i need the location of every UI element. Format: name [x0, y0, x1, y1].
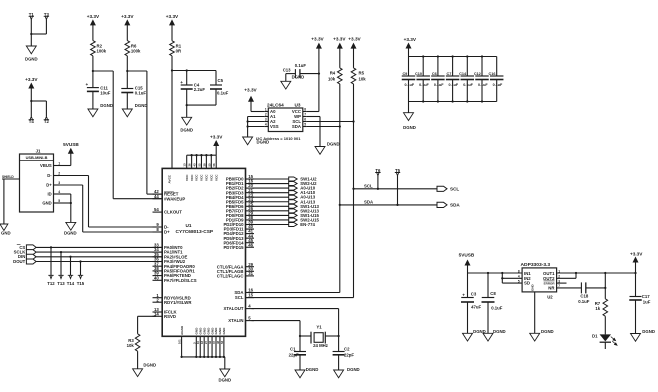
svg-text:+3.3V: +3.3V — [87, 14, 100, 19]
svg-text:D-: D- — [47, 173, 52, 178]
connector J1 USB-MINI-B — [20, 149, 54, 212]
svg-text:C9: C9 — [402, 72, 407, 76]
testpoint T5 — [395, 168, 401, 206]
svg-text:100k: 100k — [131, 48, 141, 53]
svg-text:SD: SD — [524, 281, 530, 286]
ground DGND (C3) — [463, 329, 486, 341]
wire XTALIN — [252, 321, 301, 336]
wire SCL vertical (R5) — [246, 84, 355, 298]
capacitor C18 0.1uF — [578, 282, 606, 304]
resistor R6 100k — [125, 41, 141, 56]
net tag SW1-U13 — [289, 204, 320, 209]
testpoint T3 — [44, 12, 50, 19]
wire GND bus (U1) — [178, 336, 226, 369]
svg-text:DOUT: DOUT — [13, 259, 26, 264]
pin 21 PB3/FD3 (U1) — [226, 188, 254, 196]
power +3.3V (R4) — [333, 36, 346, 68]
svg-text:CTL2/FLAGC: CTL2/FLAGC — [217, 274, 244, 279]
ground DGND (C15) — [122, 103, 147, 117]
svg-text:GND: GND — [222, 327, 226, 335]
wire SDA — [340, 200, 437, 205]
power +3.3V (R1) — [166, 14, 179, 41]
svg-text:50: 50 — [207, 163, 211, 167]
wire EN-774 — [252, 224, 289, 226]
ground DGND (C11) — [88, 103, 113, 117]
svg-text:0.1uF: 0.1uF — [463, 83, 473, 87]
svg-text:R4: R4 — [330, 70, 336, 75]
svg-text:SCL: SCL — [235, 295, 244, 300]
capacitor C4 2.2uF — [180, 80, 205, 92]
wire A1-U13 — [252, 201, 289, 203]
power +3.3V (U3 A0) — [244, 87, 257, 111]
svg-text:EN-774: EN-774 — [300, 222, 315, 227]
svg-text:T14: T14 — [67, 281, 75, 286]
pin 20 PB2/FD2 (U1) — [226, 183, 254, 191]
svg-text:NR: NR — [548, 286, 555, 291]
net tag SW1-U2 — [289, 177, 317, 182]
pin 9 D- (U1) — [153, 222, 170, 230]
wire A0 to +3.3V — [251, 111, 264, 113]
pin 7 (U3 right) — [303, 113, 307, 117]
net tag SW2-U15 — [289, 217, 320, 222]
testpoint T13 — [57, 251, 65, 286]
svg-text:C6: C6 — [432, 72, 437, 76]
wire NR to C18 — [557, 287, 582, 289]
wire SDA vertical (R4) — [246, 84, 341, 293]
svg-text:VCC: VCC — [205, 174, 209, 181]
capacitor C7 0.1uF — [446, 57, 460, 102]
ic U3 24LC64 — [267, 102, 303, 131]
wire C15 to ground — [126, 93, 128, 110]
capacitor C6 0.1uF — [431, 57, 445, 102]
ground DGND (R3) — [133, 363, 156, 377]
pin 42 RESET (U1) — [153, 189, 179, 197]
wire AVCC net — [171, 56, 173, 169]
svg-text:101: 101 — [178, 339, 182, 344]
svg-text:0R: 0R — [176, 48, 182, 53]
ground DGND (U3 WP) — [315, 141, 340, 154]
svg-text:T13: T13 — [57, 281, 65, 286]
ground DGND (U3) — [243, 137, 270, 145]
pin 5 GND — [54, 199, 61, 203]
pin 31 CTL2/FLAGC (U1) — [217, 271, 254, 279]
svg-text:VCC: VCC — [195, 174, 199, 181]
svg-text:Y1: Y1 — [316, 325, 322, 330]
capacitor C9 0.1uF — [402, 57, 416, 102]
wire 5VUSB bus — [468, 272, 523, 274]
led D1 — [592, 333, 617, 349]
pin 35 PA2 (U1) — [153, 252, 188, 260]
svg-text:0.1uF: 0.1uF — [135, 91, 147, 96]
svg-text:0.1uF: 0.1uF — [434, 83, 444, 87]
wire DIN to chip — [36, 256, 162, 258]
svg-text:5VUSB: 5VUSB — [459, 252, 475, 257]
svg-text:CY7C68013-CSP: CY7C68013-CSP — [176, 229, 214, 235]
wire SDA (U3) to bus — [307, 125, 341, 127]
pin 1 RDY0/#SLRD (U1) — [153, 293, 191, 301]
svg-text:C12: C12 — [474, 72, 481, 76]
ic U1 CY7C68013-CSP — [162, 168, 245, 336]
wire ID/GND to ground — [60, 194, 72, 222]
resistor R3 10k — [127, 334, 140, 351]
pin 16 SDA (U1) — [234, 288, 254, 296]
pin 4 ID — [54, 190, 61, 194]
power +3.3V (U1 VCC) — [210, 135, 223, 156]
svg-text:26: 26 — [188, 163, 192, 167]
pin 25 PB6/FD6 (U1) — [226, 201, 254, 209]
pin 5 (U3 right) — [303, 123, 307, 127]
svg-text:XTALOUT: XTALOUT — [224, 306, 244, 311]
ground DGND (cap bank) — [403, 113, 416, 130]
capacitor C17 1uF — [629, 273, 651, 334]
pin 33 PA0 (U1) — [153, 243, 184, 251]
pin 1 VBUS — [54, 162, 61, 166]
svg-text:+3.3V: +3.3V — [630, 251, 643, 256]
ground DGND (C17) — [631, 329, 655, 341]
net tag SW1-U15 — [289, 213, 320, 218]
wire SW1-U13 — [252, 205, 289, 207]
wire R3 to ground — [137, 351, 139, 369]
net tag SCLK — [14, 250, 37, 255]
pin 44 PD5/FD13 (U1) — [223, 233, 254, 241]
svg-text:54: 54 — [154, 207, 159, 212]
svg-text:SHIELD: SHIELD — [2, 175, 14, 179]
wire cap bank bottom bus — [409, 100, 497, 112]
svg-text:DGND: DGND — [347, 367, 360, 372]
ground DGND (U2) — [530, 329, 554, 341]
svg-text:SDA: SDA — [364, 200, 373, 205]
pin 3 D+ — [54, 181, 61, 185]
svg-text:D+: D+ — [46, 183, 52, 188]
svg-text:+3.3V: +3.3V — [166, 14, 179, 19]
testpoint T12 — [47, 246, 55, 286]
svg-text:DGND: DGND — [642, 329, 655, 334]
svg-text:C10: C10 — [415, 72, 422, 76]
svg-text:VCC: VCC — [210, 174, 214, 181]
pin 40 PA7 (U1) — [153, 275, 197, 283]
svg-text:0.1uF: 0.1uF — [578, 299, 590, 304]
svg-text:T12: T12 — [47, 281, 55, 286]
svg-text:+: + — [85, 82, 88, 87]
resistor R2 100k — [91, 41, 107, 56]
pin 6 (U3 right) — [303, 118, 307, 122]
pin 4 (U3 left) — [264, 123, 268, 127]
svg-text:D1: D1 — [592, 333, 598, 338]
resistor R4 10k — [328, 68, 342, 84]
wire D- to chip — [60, 176, 163, 228]
svg-text:+3.3V: +3.3V — [121, 14, 134, 19]
svg-text:C8: C8 — [490, 291, 496, 296]
net tag SW2-U2 — [289, 181, 317, 186]
ic U2 ADP3303-3.3 — [521, 262, 557, 299]
svg-text:C1: C1 — [290, 346, 296, 351]
svg-text:+3.3V: +3.3V — [311, 36, 324, 41]
svg-text:22pF: 22pF — [289, 352, 299, 357]
svg-text:C14: C14 — [459, 72, 467, 76]
capacitor C1 22pF — [289, 336, 306, 370]
pin 38 PD1/FD9 (U1) — [226, 215, 254, 223]
pin 37 PA4 (U1) — [153, 261, 196, 269]
svg-text:0.1uF: 0.1uF — [217, 91, 229, 96]
wire OUT2 — [557, 273, 576, 278]
resistor R1 0R — [170, 41, 182, 56]
pin 14 RSVD (U1) — [153, 311, 176, 319]
pin 30 CTL1/FLAGB (U1) — [217, 266, 254, 274]
svg-text:0.1uF: 0.1uF — [295, 63, 307, 68]
pin 46 PD7/FD15 (U1) — [223, 242, 254, 250]
power +3.3V (R5) — [348, 36, 361, 68]
svg-text:22pF: 22pF — [344, 352, 354, 357]
svg-text:GND: GND — [42, 201, 51, 206]
pin 4 XTALOUT (U1) — [224, 304, 254, 312]
wire OUT1 +3.3V bus — [557, 272, 637, 274]
ground DGND (C2) — [334, 367, 360, 378]
svg-text:46: 46 — [248, 242, 253, 247]
svg-text:C13: C13 — [283, 68, 291, 73]
net tag SW2-U13 — [289, 208, 320, 213]
ground DGND (U1) — [218, 369, 231, 383]
wire CS to chip — [36, 246, 162, 248]
svg-text:+3.3V: +3.3V — [333, 36, 346, 41]
capacitor C13 0.1uF — [283, 63, 320, 81]
pin 44 WAKEUP (U1) — [153, 194, 186, 202]
pin 5 XTALIN (U1) — [228, 316, 254, 324]
svg-text:RSVD: RSVD — [164, 314, 176, 319]
svg-text:GND: GND — [531, 284, 535, 292]
svg-text:10k: 10k — [328, 76, 336, 81]
svg-text:DGND: DGND — [306, 367, 319, 372]
net tag SCL — [437, 186, 459, 191]
svg-text:47uF: 47uF — [471, 304, 481, 309]
svg-text:T4: T4 — [29, 119, 35, 124]
svg-text:0.1uF: 0.1uF — [449, 83, 459, 87]
net tag SDA — [437, 202, 460, 207]
svg-text:C5: C5 — [218, 78, 224, 83]
svg-text:SDA: SDA — [292, 124, 301, 129]
pin 8 D+ (U1) — [153, 227, 171, 235]
svg-text:DGND: DGND — [292, 74, 305, 79]
svg-text:DGND: DGND — [403, 125, 416, 130]
svg-text:C7: C7 — [447, 72, 452, 76]
net tag A0-U13 — [289, 195, 316, 200]
svg-text:C18: C18 — [580, 294, 588, 299]
svg-text:DGND: DGND — [100, 103, 113, 108]
wire SW1-U2 — [252, 178, 289, 180]
ground GND (shield) — [0, 224, 11, 236]
svg-text:U1: U1 — [186, 223, 192, 228]
svg-text:#WAKEUP: #WAKEUP — [164, 196, 185, 201]
pin 29 CTL0/FLAGA (U1) — [217, 262, 254, 270]
testpoint T2 — [44, 116, 50, 123]
svg-text:XTALIN: XTALIN — [228, 318, 243, 323]
svg-text:55: 55 — [197, 163, 201, 167]
svg-text:14: 14 — [154, 311, 159, 316]
wire C11 to ground — [92, 91, 94, 109]
wire SCL (U3) to bus — [307, 120, 355, 122]
ground DGND (J1) — [64, 222, 77, 235]
power 5VUSB (regulator) — [459, 252, 475, 273]
wire A1/A2/VSS to ground — [246, 117, 264, 138]
testpoint T15 — [77, 260, 85, 285]
power +3.3V (cap bank) — [404, 37, 417, 56]
pin 34 PA1 (U1) — [153, 247, 184, 255]
svg-text:VCC: VCC — [200, 174, 204, 181]
wire A0-U10 — [252, 187, 289, 189]
pin 15 SCL (U1) — [235, 293, 254, 301]
capacitor C12 0.1uF — [474, 57, 489, 102]
svg-text:5: 5 — [518, 279, 520, 283]
svg-text:+3.3V: +3.3V — [25, 77, 38, 82]
power +3.3V (R2) — [87, 14, 100, 40]
wire D+ to chip — [60, 185, 163, 232]
pin 38 PA5 (U1) — [153, 266, 196, 274]
svg-text:24LC64: 24LC64 — [267, 102, 284, 107]
svg-text:0.1uF: 0.1uF — [404, 83, 414, 87]
svg-text:+3.3V: +3.3V — [244, 87, 257, 92]
svg-text:100k: 100k — [97, 48, 107, 53]
pin 16 PB1/FD1 (U1) — [226, 179, 254, 187]
svg-text:C3: C3 — [471, 292, 477, 297]
svg-text:SCL: SCL — [364, 183, 373, 188]
pin 23 PB4/FD4 (U1) — [226, 192, 254, 200]
svg-text:+3.3V: +3.3V — [348, 36, 361, 41]
wire ERROR stub — [557, 282, 567, 284]
wire to C4/C5 — [172, 69, 216, 85]
pin 1 (U3 left) — [264, 108, 268, 112]
svg-text:56: 56 — [212, 163, 216, 167]
net SHIELD — [2, 175, 20, 224]
svg-text:VSS: VSS — [270, 124, 279, 129]
wire C4/C5 to ground — [186, 89, 216, 117]
svg-text:2.2uF: 2.2uF — [194, 87, 206, 92]
net tag DOUT — [13, 259, 36, 264]
pin 6 GND (U2) — [534, 292, 536, 333]
wire RESET net — [127, 71, 162, 194]
svg-text:10k: 10k — [359, 76, 367, 81]
ground DGND (C8) — [483, 329, 506, 341]
svg-text:DGND: DGND — [493, 329, 506, 334]
net tag A1-U13 — [289, 199, 316, 204]
wire +3.3V to T4/T2 — [30, 100, 46, 116]
svg-text:R3: R3 — [128, 338, 134, 343]
svg-text:U2: U2 — [547, 295, 553, 300]
ground DGND (C1) — [295, 367, 318, 378]
crystal Y1 24 MHz — [299, 325, 340, 349]
svg-text:13: 13 — [183, 163, 187, 167]
wire IN2/SD — [501, 273, 522, 283]
net tag A1-U10 — [289, 190, 316, 195]
power +3.3V (T4/T2) — [25, 77, 38, 101]
svg-text:ID: ID — [48, 192, 52, 197]
svg-text:DGND: DGND — [327, 141, 340, 146]
wire A0-U13 — [252, 196, 289, 198]
svg-text:C16: C16 — [489, 72, 496, 76]
svg-text:PA7/#FLD/SLCS: PA7/#FLD/SLCS — [164, 278, 197, 283]
svg-text:4: 4 — [518, 275, 520, 279]
pin 8 (U3 right) — [303, 108, 307, 112]
capacitor C11 10uF — [85, 82, 110, 95]
wire R2 to C11 junction — [92, 56, 94, 88]
wire SW2-U13 — [252, 210, 289, 212]
power +3.3V (U3 VCC) — [311, 36, 324, 48]
svg-text:AGND: AGND — [180, 325, 184, 335]
svg-text:DGND: DGND — [180, 127, 193, 132]
svg-text:43: 43 — [193, 163, 197, 167]
svg-text:31: 31 — [248, 271, 253, 276]
pin 45 PD6/FD14 (U1) — [223, 238, 254, 246]
capacitor C15 0.1uF — [121, 86, 146, 96]
testpoint T1 — [29, 12, 35, 19]
svg-text:DGND: DGND — [218, 378, 231, 383]
svg-text:DGND: DGND — [135, 103, 148, 108]
svg-text:T2: T2 — [44, 119, 50, 124]
capacitor C5 0.1uF — [210, 78, 229, 95]
svg-text:+: + — [180, 80, 183, 85]
power +3.3V (regulator out) — [630, 251, 643, 273]
svg-text:R5: R5 — [359, 70, 365, 75]
wire VBUS to 5VUSB — [60, 165, 71, 167]
svg-text:28: 28 — [202, 163, 206, 167]
svg-text:+3.3V: +3.3V — [404, 37, 417, 42]
svg-text:15: 15 — [248, 293, 253, 298]
svg-text:SDA: SDA — [450, 203, 460, 208]
svg-text:0.1uF: 0.1uF — [419, 83, 429, 87]
svg-text:0.1uF: 0.1uF — [493, 83, 503, 87]
ground DGND (C4/C5) — [180, 117, 193, 132]
svg-text:J1: J1 — [36, 149, 41, 154]
capacitor C10 0.1uF — [415, 57, 430, 102]
wire R7 branch — [604, 273, 606, 299]
svg-text:USB-MINI-B: USB-MINI-B — [26, 155, 48, 160]
power 5VUSB (J1) — [63, 142, 79, 166]
capacitor C14 0.1uF — [459, 57, 474, 102]
net tag EN-774 — [289, 222, 316, 227]
pin 24 PB5/FD5 (U1) — [226, 197, 254, 205]
pin 36 PA3 (U1) — [153, 257, 186, 265]
pin 41 PD4/FD12 (U1) — [223, 229, 254, 237]
svg-text:GND: GND — [1, 231, 11, 236]
wire VCC bus — [183, 154, 217, 168]
pin 3 (U3 left) — [264, 118, 268, 122]
wire RSVD to R3 — [138, 316, 156, 334]
svg-text:53: 53 — [220, 340, 224, 344]
wire WAKEUP net — [93, 71, 162, 199]
wire SW1-U15 — [252, 214, 289, 216]
wire SW2-U2 — [252, 183, 289, 185]
svg-text:VCC: VCC — [190, 174, 194, 181]
pin 26 PB7/FD7 (U1) — [226, 206, 254, 214]
pin 39 PA6 (U1) — [153, 271, 191, 279]
svg-text:VBUS: VBUS — [40, 163, 52, 168]
pin 40 PD3/FD11 (U1) — [224, 224, 254, 232]
svg-text:DGND: DGND — [64, 230, 77, 235]
capacitor C3 47uF — [461, 273, 482, 333]
wire R6 to C15 junction — [126, 56, 128, 89]
svg-text:RDY1/#SLWR: RDY1/#SLWR — [164, 300, 192, 305]
pin 2 RDY1/#SLWR (U1) — [153, 297, 193, 305]
svg-text:10k: 10k — [127, 343, 135, 348]
svg-text:CLKOUT: CLKOUT — [164, 210, 182, 215]
svg-text:T15: T15 — [77, 281, 85, 286]
testpoint T4 — [29, 116, 35, 123]
capacitor C16 0.1uF — [489, 57, 504, 102]
capacitor C2 22pF — [333, 336, 355, 370]
pin 13 IFCLK (U1) — [153, 307, 178, 315]
svg-text:1uF: 1uF — [643, 299, 651, 304]
pin 15 PB0/FD0 (U1) — [226, 174, 254, 182]
svg-text:0.1uF: 0.1uF — [478, 83, 488, 87]
net tag CS — [17, 245, 36, 250]
